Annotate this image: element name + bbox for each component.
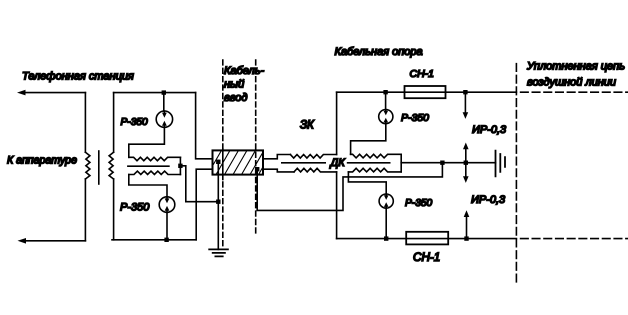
coil ЗК top winding <box>290 155 336 159</box>
arrester Р-350 lower left: circle <box>159 197 175 213</box>
arrester Р-350 upper left: circle <box>156 111 172 127</box>
node: top rail arrow junction <box>463 90 467 94</box>
arrester Р-350 lower left: lead from coil <box>129 175 167 197</box>
arrester Р-350 upper right: inner arrows <box>385 110 387 112</box>
wire: primary left vertical bottom <box>84 179 86 241</box>
svg-text:ЗК: ЗК <box>300 119 315 131</box>
svg-text:Уплотненная цепь: Уплотненная цепь <box>526 61 625 73</box>
coil ЗК core line <box>282 162 325 164</box>
wire: coil L1 right bracket <box>179 157 181 174</box>
wire: cable bottom conductor through entry <box>263 169 294 172</box>
wire: station block top rail <box>114 92 196 94</box>
wire: bottom conductor branch to ДК centre <box>257 163 442 211</box>
svg-text:СН-1: СН-1 <box>410 68 435 80</box>
node: top rail junction <box>162 90 166 94</box>
svg-text:К аппаратуре: К аппаратуре <box>7 154 77 166</box>
label Уплотненная цепь воздушной линии <box>526 61 625 89</box>
wire: station right vertical lower <box>196 169 212 240</box>
svg-text:ввод: ввод <box>224 92 247 104</box>
svg-text:Р-350: Р-350 <box>121 117 149 128</box>
wire: centre tap to ground bus <box>180 166 218 202</box>
svg-text:воздушной линии: воздушной линии <box>527 76 616 88</box>
svg-text:ИР-0,3: ИР-0,3 <box>472 124 507 136</box>
wire: station right vertical upper <box>196 93 213 159</box>
svg-text:СН-1: СН-1 <box>413 251 440 264</box>
node: coil L1 centre tap <box>178 164 182 168</box>
dashed boundary: overhead line bottom horizontal <box>521 238 628 240</box>
arrester Р-350 upper right: lead <box>385 92 387 109</box>
node: bottom rail to arrester <box>384 236 388 240</box>
transformer T1 core <box>98 151 100 184</box>
svg-text:Телефонная станция: Телефонная станция <box>22 71 134 83</box>
dashed boundary: cable entry left <box>222 60 224 149</box>
arrester Р-350 lower right: lead from ДК bottom <box>348 172 386 194</box>
wire: pole top rail <box>337 91 517 93</box>
node: cable bottom tap in entry box <box>255 167 259 171</box>
node: sheath tap in entry box <box>216 160 220 164</box>
arrester Р-350 lower right: inner arrows <box>385 194 387 196</box>
dashed boundary: overhead line vertical <box>515 64 517 284</box>
coil L1 bottom winding <box>129 171 181 174</box>
dashed boundary: overhead line top horizontal <box>521 91 628 93</box>
coil ДК bottom winding <box>348 168 401 172</box>
coil L1 core line <box>128 165 169 167</box>
wire: station bottom lead with left arrow <box>24 240 85 242</box>
wire: secondary vertical top <box>113 93 115 153</box>
svg-text:ИР-0,3: ИР-0,3 <box>471 194 506 206</box>
arrester Р-350 upper left: lead from rail <box>163 93 165 111</box>
svg-text:Кабель-: Кабель- <box>224 65 265 77</box>
label Кабельный ввод <box>224 65 265 104</box>
ground <box>209 249 228 256</box>
svg-text:Кабельная опора: Кабельная опора <box>335 46 423 58</box>
node: junction on ground wire <box>216 200 220 204</box>
svg-text:Р-350: Р-350 <box>401 112 429 124</box>
fuse СН-1 bottom <box>406 232 448 245</box>
node: centre arrows junction <box>464 161 468 165</box>
arrester Р-350 lower right: circle <box>379 194 393 208</box>
wire: pole bottom rail <box>337 238 517 240</box>
coil ДК top winding <box>351 154 402 158</box>
wire: station block bottom rail <box>112 239 196 241</box>
arrester Р-350 upper right: circle <box>379 110 393 124</box>
node: bottom rail junction <box>164 238 168 242</box>
wire: primary left vertical top <box>84 93 86 153</box>
wire: ДК centre output <box>401 162 442 164</box>
coil ЗК bottom winding <box>294 168 337 172</box>
measurement arrow ИР-0,3 bottom up <box>466 217 468 239</box>
cable entry box (hatched) <box>208 150 273 174</box>
measurement arrow ИР-0,3 top <box>464 92 466 112</box>
measurement arrow ИР-0,3 middle up <box>465 149 467 163</box>
transformer T1 primary winding <box>85 152 90 179</box>
wire: cable sheath ground drop <box>217 161 219 250</box>
arrester Р-350 upper left: inner arrows <box>163 111 165 113</box>
wire: coil ДК right bracket <box>400 154 402 172</box>
earth electrode (rotated ground) <box>496 151 506 177</box>
arrester Р-350 lower left: inner arrows <box>166 197 168 199</box>
wire: station top lead with left arrow <box>24 92 85 94</box>
coil L1 top winding <box>129 157 181 160</box>
wire: arrester to ДК top winding <box>351 124 386 155</box>
wire: ЗК bottom to bottom rail <box>336 172 338 239</box>
transformer T1 secondary winding <box>109 152 114 179</box>
svg-text:ДК: ДК <box>329 157 346 169</box>
node: bottom rail arrow junction <box>464 236 468 240</box>
wire: arrester to bottom rail <box>166 212 168 239</box>
coil ДК core line <box>348 162 390 164</box>
svg-text:Р-350: Р-350 <box>405 198 433 209</box>
wire: cable top conductor through entry <box>263 155 290 159</box>
fuse СН-1 top <box>405 86 446 98</box>
node: ДК output junction <box>440 161 444 165</box>
node: rail to arrester <box>383 90 387 94</box>
svg-text:ный: ный <box>224 78 244 90</box>
wire: arrester to bottom rail <box>385 208 387 238</box>
measurement arrow ИР-0,3 middle down <box>465 163 467 177</box>
wire: centre wire to earth <box>442 162 495 164</box>
wire: secondary vertical bottom <box>113 179 115 240</box>
wire: arrester to coil top lead <box>129 127 165 157</box>
svg-text:Р-350: Р-350 <box>120 202 150 214</box>
wire: ЗК top to top rail <box>336 92 338 154</box>
dashed boundary: cable entry right <box>255 60 257 236</box>
